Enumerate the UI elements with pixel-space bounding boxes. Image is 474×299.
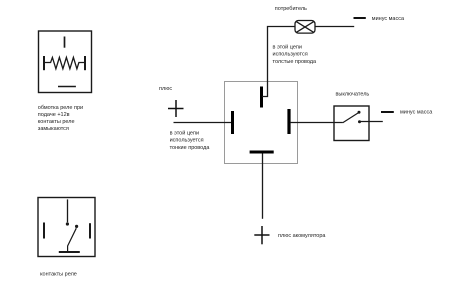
- svg-text:минус масса: минус масса: [400, 109, 433, 115]
- svg-text:в этой цепи: в этой цепи: [170, 130, 199, 137]
- socket pin top: [260, 87, 263, 108]
- switch box: [334, 106, 369, 141]
- switch contact dot (arm end): [358, 111, 361, 114]
- svg-text:толстые провода: толстые провода: [273, 59, 318, 65]
- ground bar (right): [381, 111, 394, 113]
- ground bar (top): [354, 17, 366, 19]
- plus symbol (left): [168, 100, 184, 117]
- label: coil description: [38, 105, 83, 132]
- coil top terminal stub: [64, 37, 66, 48]
- switch contact dot (output): [358, 120, 361, 123]
- svg-text:тонкие провода: тонкие провода: [170, 145, 211, 151]
- svg-text:минус масса: минус масса: [372, 16, 405, 22]
- contact moving point: [75, 225, 78, 228]
- plus symbol (battery): [254, 226, 269, 244]
- svg-text:обмотка реле при: обмотка реле при: [38, 105, 83, 111]
- svg-text:используется: используется: [170, 138, 204, 144]
- svg-text:выключатель: выключатель: [336, 92, 370, 98]
- svg-text:плюс: плюс: [159, 86, 172, 92]
- wire: socket bottom pin to battery: [262, 154, 264, 219]
- relay coil detail box: [39, 31, 92, 93]
- svg-text:контакты реле: контакты реле: [40, 272, 77, 278]
- lamp (consumer): [295, 21, 315, 34]
- wire: plus to socket left pin: [174, 122, 232, 124]
- svg-text:в этой цепи: в этой цепи: [273, 44, 302, 51]
- label: в этой цепи используются толстые провода: [273, 44, 318, 65]
- socket pin left: [231, 111, 234, 134]
- contact fixed point: [66, 222, 69, 225]
- right terminal tick: [89, 223, 91, 238]
- svg-text:потребитель: потребитель: [275, 6, 307, 12]
- svg-text:замыкаются: замыкаются: [38, 126, 69, 132]
- svg-text:контакты реле: контакты реле: [38, 119, 75, 125]
- socket pin right: [287, 109, 290, 134]
- label: в этой цепи используется тонкие провода: [170, 130, 211, 151]
- svg-text:плюс акомулятора: плюс акомулятора: [278, 233, 326, 239]
- coil bottom terminal stub: [58, 86, 76, 88]
- coil resistor (winding): [44, 56, 85, 70]
- svg-text:используются: используются: [273, 52, 308, 58]
- socket pin bottom: [250, 151, 274, 154]
- contact bottom bar: [59, 251, 80, 253]
- svg-text:подаче +12в: подаче +12в: [38, 112, 70, 118]
- wire: socket right pin to switch: [290, 122, 343, 124]
- wire: lamp to ground: [315, 26, 354, 28]
- contact armature: [68, 228, 77, 251]
- relay contacts detail box: [38, 198, 95, 257]
- wire: switch to ground: [361, 121, 383, 123]
- contact input line: [67, 199, 69, 222]
- relay socket box: [225, 82, 298, 164]
- switch arm: [343, 113, 359, 123]
- left terminal tick: [43, 223, 45, 239]
- wire: lamp branch vertical: [262, 27, 295, 97]
